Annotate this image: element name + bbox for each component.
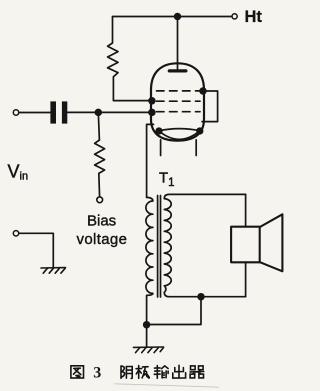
caption char shu <box>154 366 168 379</box>
grid row g2 mid dashed <box>157 100 201 102</box>
caption char tu (figure) <box>71 366 84 378</box>
cathode <box>159 129 200 140</box>
wire cathode to transformer primary <box>147 124 154 197</box>
anode plate <box>169 69 186 72</box>
caption char yin <box>121 366 132 379</box>
tube V1 envelope <box>151 63 204 140</box>
transformer core line 1 <box>157 196 159 298</box>
wire input to capacitor <box>19 112 50 114</box>
ground input <box>41 268 66 274</box>
node cathode left <box>156 128 162 134</box>
caption char chu <box>173 365 186 378</box>
svg-text:voltage: voltage <box>77 231 128 248</box>
capacitor C1 plate 2 <box>62 101 67 123</box>
wire speaker bottom <box>245 262 247 296</box>
caption char ji <box>136 366 149 379</box>
grid row g2 top dashed <box>157 90 201 92</box>
resistor R1 grid resistor <box>108 17 152 101</box>
wire ground lead output <box>146 325 148 347</box>
node transformer ground <box>144 322 150 328</box>
svg-text:Ht: Ht <box>245 8 263 26</box>
wire secondary return <box>147 297 201 325</box>
wire screen loop <box>202 91 218 122</box>
transformer core line 2 <box>160 196 162 298</box>
terminal input <box>13 110 18 115</box>
node secondary bottom <box>198 294 204 300</box>
wire bias tap down <box>98 112 99 140</box>
caption figure 3 cathode follower <box>71 365 204 378</box>
terminal bias <box>97 197 103 203</box>
transformer T1 primary winding <box>146 197 153 325</box>
svg-text:3: 3 <box>93 365 101 382</box>
node grid g2 left <box>149 98 155 104</box>
node screen right <box>200 88 206 94</box>
terminal Ht <box>232 14 237 19</box>
node cathode right <box>197 128 203 134</box>
wire anode lead <box>177 17 179 70</box>
heater lead right <box>195 140 197 156</box>
node grid g1 <box>149 110 155 116</box>
heater lead left <box>160 140 162 156</box>
wire capacitor to grid <box>67 111 152 113</box>
node bias tap <box>95 110 101 116</box>
transformer T1 secondary winding <box>164 194 245 296</box>
capacitor C1 plate 1 <box>50 101 56 123</box>
grid row g1 dashed <box>157 111 201 113</box>
wire input ground lead <box>19 233 53 266</box>
ground output <box>133 347 163 353</box>
speaker LS1 driver <box>231 227 260 263</box>
caption char qi <box>190 366 204 378</box>
svg-text:Bias: Bias <box>87 212 116 229</box>
wire Ht supply rail <box>113 16 232 18</box>
terminal input ground <box>13 231 18 236</box>
caption faint underline <box>114 384 219 387</box>
node anode junction <box>175 14 181 20</box>
speaker LS1 horn <box>260 214 283 271</box>
resistor R2 bias resistor <box>95 140 105 197</box>
wire speaker top <box>245 194 247 226</box>
